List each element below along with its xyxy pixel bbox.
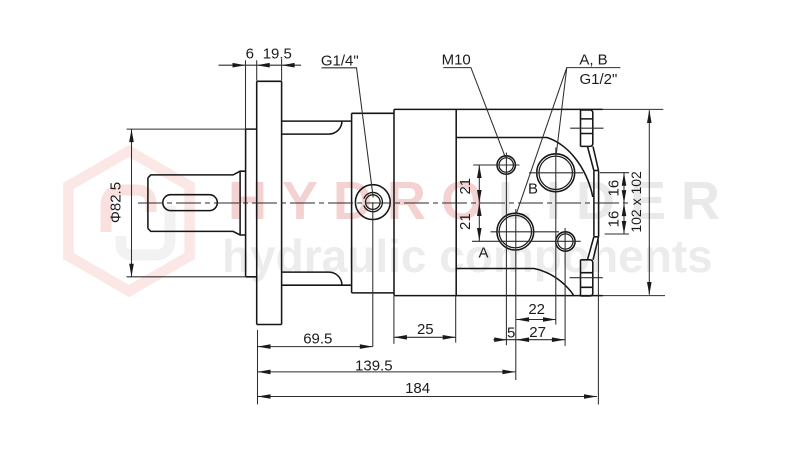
arrows phi82.5 xyxy=(129,129,134,142)
neck silhouette xyxy=(282,121,352,285)
arrows 6 / 19.5 xyxy=(233,63,246,68)
body bottom edge xyxy=(394,295,603,297)
leader G1/4 xyxy=(322,68,374,198)
svg-text:A: A xyxy=(478,245,488,262)
leader A B xyxy=(516,68,620,214)
svg-text:5: 5 xyxy=(507,325,515,342)
G1/4 thread arc xyxy=(364,192,383,211)
arrows 16 16 xyxy=(622,173,627,186)
svg-text:6: 6 xyxy=(246,46,254,63)
arrows 102x102 xyxy=(647,110,652,123)
svg-text:M10: M10 xyxy=(442,52,471,69)
svg-text:16: 16 xyxy=(606,180,623,197)
rear plate edge tab xyxy=(594,171,599,237)
dim 22 line xyxy=(516,319,556,321)
neck rib bottom xyxy=(282,272,342,285)
svg-text:G1/2": G1/2" xyxy=(579,71,617,88)
svg-text:139.5: 139.5 xyxy=(355,358,393,375)
svg-text:25: 25 xyxy=(417,321,434,338)
port B crosshair xyxy=(529,148,583,325)
dim 6 and 19.5 lines xyxy=(219,59,302,129)
bolt axis bottom xyxy=(570,277,603,279)
body divider 2 xyxy=(455,109,457,295)
boss edge bottom xyxy=(588,237,599,260)
body section 1 xyxy=(352,113,394,293)
neck rib top xyxy=(282,121,342,134)
svg-text:184: 184 xyxy=(405,380,430,397)
port A xyxy=(497,213,534,250)
drain hole xyxy=(556,232,575,251)
G1/4 port circle xyxy=(355,185,390,220)
svg-text:27: 27 xyxy=(529,324,546,341)
arrowheads xyxy=(129,63,651,399)
svg-text:21: 21 xyxy=(457,178,474,195)
svg-text:B: B xyxy=(528,180,538,197)
dim 102x102 lines xyxy=(603,109,665,295)
rear plate outline top xyxy=(456,138,593,198)
pilot xyxy=(246,129,257,277)
arrows 22 xyxy=(516,317,529,322)
svg-text:16: 16 xyxy=(606,211,623,228)
watermark logo hexagon xyxy=(68,151,189,291)
dim 25 lines xyxy=(394,296,456,344)
dimension texts xyxy=(108,46,644,397)
M10 hole xyxy=(497,156,515,174)
svg-text:22: 22 xyxy=(528,301,545,318)
dim phi82.5 lines xyxy=(127,129,246,277)
keyway xyxy=(163,195,218,211)
arrows 69.5 xyxy=(258,344,271,349)
flange xyxy=(257,81,282,324)
G1/4 inner circle xyxy=(366,195,381,210)
arrows 21 21 xyxy=(477,165,482,178)
svg-text:69.5: 69.5 xyxy=(303,331,332,348)
arrows 25 xyxy=(394,335,407,340)
port A crosshair xyxy=(491,209,560,380)
dim 16 lines xyxy=(600,173,629,234)
M10 crosshair xyxy=(473,153,519,346)
dim 139.5 line xyxy=(258,371,516,373)
arrows 184 xyxy=(258,394,271,399)
svg-text:19.5: 19.5 xyxy=(263,46,292,63)
boss edge top xyxy=(588,147,599,171)
body top edge xyxy=(394,108,603,110)
svg-text:Φ82.5: Φ82.5 xyxy=(108,182,125,223)
shaft collar face xyxy=(239,171,241,235)
dim 21 lines xyxy=(472,165,581,241)
bolt axis top xyxy=(570,127,603,129)
body divider 1 xyxy=(393,109,395,295)
arrows 5 27 xyxy=(494,337,507,342)
drain crosshair xyxy=(564,228,566,346)
G1/4 vertical line xyxy=(372,202,374,347)
leader M10 xyxy=(443,68,505,158)
dim 184 line xyxy=(258,239,599,405)
svg-text:102 x 102: 102 x 102 xyxy=(628,171,644,233)
hex bolt top xyxy=(581,110,593,146)
port B xyxy=(537,154,575,192)
svg-text:hydraulic components: hydraulic components xyxy=(222,230,713,282)
centerline xyxy=(138,202,629,204)
svg-text:21: 21 xyxy=(457,213,474,230)
hex bolt bottom xyxy=(581,260,593,296)
svg-text:A, B: A, B xyxy=(579,52,607,69)
rear plate outline bottom xyxy=(456,269,574,296)
shaft xyxy=(148,171,246,235)
svg-text:G1/4": G1/4" xyxy=(321,52,359,69)
dim 5 27 line xyxy=(493,339,565,341)
arrows 139.5 xyxy=(258,370,271,375)
dim 69.5 line xyxy=(258,330,373,404)
